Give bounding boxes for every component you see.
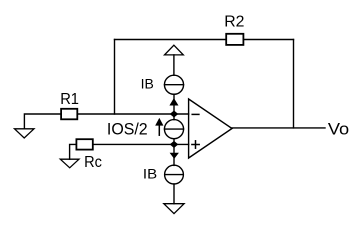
ground left bbox=[15, 129, 35, 138]
wire non-inverting node to IB bottom bbox=[173, 144, 175, 165]
current arrow IB bottom bbox=[171, 153, 178, 158]
wire inverting input line bbox=[78, 113, 188, 115]
junction inverting node bbox=[171, 111, 178, 117]
current direction arrow IOS/2 bbox=[158, 124, 160, 135]
wire R1 to ground bbox=[24, 114, 60, 129]
svg-text:Rc: Rc bbox=[84, 154, 102, 171]
svg-text:Vo: Vo bbox=[328, 121, 349, 139]
wire non-inverting input line bbox=[94, 143, 189, 145]
svg-text:IB: IB bbox=[141, 77, 154, 93]
ground bottom bbox=[164, 204, 184, 214]
wire IOS/2 to non-inverting node bbox=[173, 139, 175, 145]
wire supply arrow to IB top bbox=[173, 55, 175, 75]
wire R2 to output node bbox=[244, 39, 294, 41]
wire inverting node to IOS/2 bbox=[173, 114, 175, 120]
resistor R2 bbox=[226, 34, 243, 45]
current source IB top bbox=[164, 75, 183, 94]
wire left vertical feedback to inverting node bbox=[114, 40, 116, 115]
current source IOS/2 bbox=[164, 120, 183, 139]
resistor Rc bbox=[76, 139, 92, 149]
wire output to Vo bbox=[232, 127, 325, 129]
current source IB bottom bbox=[165, 165, 184, 184]
svg-text:R1: R1 bbox=[60, 91, 79, 108]
op-amp U1 bbox=[189, 99, 232, 158]
svg-text:IOS/2: IOS/2 bbox=[107, 121, 148, 139]
resistor R1 bbox=[61, 109, 77, 120]
wire right vertical feedback to output bbox=[293, 40, 295, 128]
op-amp non-inverting input marker bbox=[192, 144, 199, 146]
svg-text:R2: R2 bbox=[224, 13, 244, 30]
wire Rc left lead to ground bbox=[70, 144, 76, 159]
svg-text:IB: IB bbox=[143, 166, 157, 182]
supply arrow V+ for IB top bbox=[165, 45, 184, 55]
junction non-inverting node bbox=[171, 142, 178, 148]
wire IB top to inverting node bbox=[173, 94, 175, 114]
ground under Rc bbox=[60, 159, 79, 168]
op-amp inverting input marker bbox=[192, 113, 199, 115]
wire IB bottom to ground bbox=[173, 184, 175, 204]
current arrow IB top bbox=[170, 99, 177, 105]
wire feedback top-left segment bbox=[115, 39, 227, 41]
